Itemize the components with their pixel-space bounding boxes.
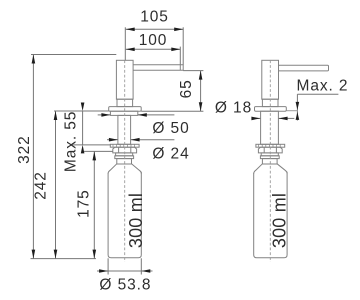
hex nut — [113, 147, 137, 153]
svg-text:Ø 50: Ø 50 — [152, 120, 189, 137]
svg-text:100: 100 — [139, 32, 168, 49]
O50 leader — [98, 114, 111, 116]
242 ref line — [54, 110, 109, 112]
65 dim line — [200, 71, 202, 112]
spout front — [133, 65, 183, 71]
65 top ref line — [183, 70, 203, 72]
spout tip detail — [179, 65, 181, 71]
left centerline — [124, 60, 126, 262]
175 dim line — [93, 151, 95, 258]
65 bottom ref line — [141, 110, 203, 112]
pump head — [262, 60, 279, 99]
right centerline — [269, 60, 271, 262]
322 dim line — [32, 55, 34, 259]
thread ring — [115, 156, 134, 159]
serrated washer — [110, 144, 139, 147]
O53.8 ext lines — [107, 258, 109, 274]
Max2 arrows (outside) — [296, 102, 300, 110]
Max55 arrows (outside) — [81, 103, 85, 112]
washer-top ref line — [71, 144, 111, 146]
O18 dim line — [252, 117, 260, 119]
65 arrows — [199, 71, 203, 80]
105 dim line — [126, 28, 184, 30]
svg-text:Ø 18: Ø 18 — [215, 100, 252, 117]
O24 leader — [107, 139, 118, 141]
head collar — [262, 99, 278, 106]
svg-text:300 ml: 300 ml — [270, 193, 290, 248]
threaded shaft — [118, 115, 131, 144]
thread ring — [260, 156, 279, 159]
O53.8 dim line — [97, 270, 153, 272]
bottle shoulder — [254, 164, 263, 174]
head collar — [117, 99, 133, 106]
O18 arrows (outside) — [251, 117, 260, 121]
Max55 dim line — [82, 111, 84, 145]
105 arrows — [126, 28, 135, 32]
svg-text:Ø 24: Ø 24 — [152, 145, 189, 162]
bottle body — [254, 172, 287, 258]
spout side — [279, 65, 329, 71]
svg-text:175: 175 — [76, 189, 93, 218]
100 arrows — [126, 48, 135, 52]
serrated washer — [256, 144, 285, 147]
extension line 105 — [182, 27, 184, 64]
svg-text:242: 242 — [33, 171, 50, 200]
bottle shoulder — [108, 164, 117, 174]
pump head — [116, 60, 133, 99]
flange skirt — [110, 111, 137, 115]
O50 arrows (outside) — [101, 113, 110, 117]
top reference line (322) — [31, 54, 116, 56]
svg-text:Max. 2: Max. 2 — [297, 77, 349, 94]
bottle neck — [262, 159, 277, 164]
O24 arrows (outside) — [109, 138, 118, 142]
svg-text:322: 322 — [16, 135, 33, 164]
hex nut — [258, 147, 282, 153]
flange plate — [255, 107, 287, 112]
242 dim line — [55, 111, 57, 259]
svg-text:Ø 53.8: Ø 53.8 — [99, 277, 151, 294]
322 arrows — [32, 55, 36, 64]
threaded tube — [261, 111, 279, 144]
flange plate — [109, 107, 142, 112]
svg-text:105: 105 — [140, 9, 169, 26]
242 arrows — [54, 111, 58, 120]
Max2 ref — [287, 110, 298, 112]
bottle body — [108, 172, 141, 258]
175 top ref line — [83, 150, 113, 152]
extension line center — [124, 27, 126, 60]
nut lower cylinder — [116, 153, 133, 156]
svg-text:Max. 55: Max. 55 — [63, 111, 80, 172]
nut lower cylinder — [261, 153, 278, 156]
svg-text:300 ml: 300 ml — [126, 193, 146, 248]
extension line 100 — [179, 47, 181, 65]
bottom ref line — [31, 258, 97, 260]
100 dim line — [126, 48, 181, 50]
O53.8 arrows (outside) — [99, 269, 108, 273]
Max2 leader — [297, 93, 338, 95]
175 arrows — [93, 151, 97, 160]
svg-text:65: 65 — [178, 79, 195, 98]
bottle neck — [117, 159, 132, 164]
